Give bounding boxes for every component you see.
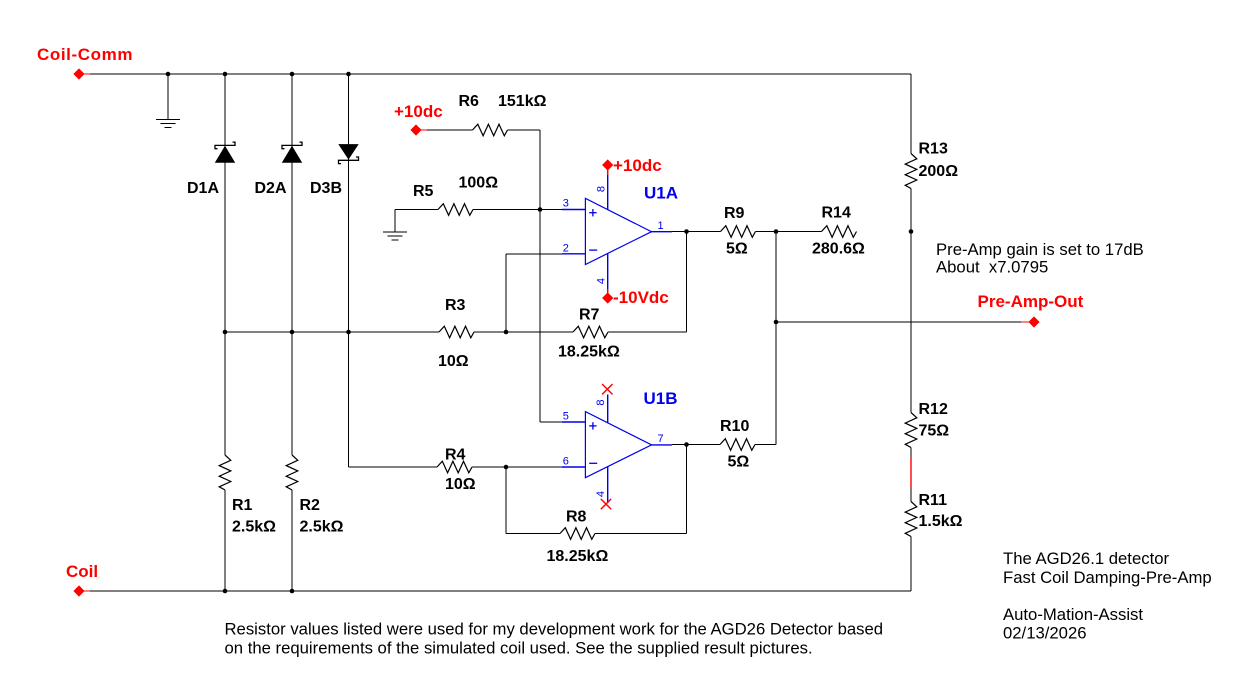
note gain line 1 — [936, 240, 1144, 259]
note author — [1003, 605, 1143, 624]
wire R8 to U1B output — [595, 445, 687, 534]
no-connect X at U1B pin 4 — [601, 499, 611, 509]
note title line 1 — [1003, 549, 1169, 568]
resistor R14 — [812, 205, 865, 258]
resistor R7 — [558, 307, 620, 361]
wire net stub to R11 — [910, 488, 912, 502]
svg-text:D2A: D2A — [255, 180, 287, 197]
svg-text:4: 4 — [596, 278, 608, 284]
junction top rail at D3B — [346, 72, 351, 77]
svg-text:+10dc: +10dc — [394, 102, 443, 121]
svg-text:Coil-Comm: Coil-Comm — [37, 45, 133, 64]
wire top rail — [90, 73, 911, 75]
svg-text:6: 6 — [563, 456, 569, 468]
resistor R12 — [905, 401, 949, 447]
pin 8 label U1B — [595, 399, 607, 405]
resistor R8 — [547, 509, 609, 566]
node +10dc at U1A pin 8 — [602, 156, 662, 175]
wire right rail top — [910, 74, 912, 154]
svg-text:151kΩ: 151kΩ — [498, 93, 547, 110]
svg-text:2.5kΩ: 2.5kΩ — [232, 519, 276, 536]
op-amp U1B — [562, 389, 678, 503]
wire R11 to bottom rail — [910, 537, 912, 592]
zener diode D1A — [187, 142, 235, 197]
wire R9 to mid node — [756, 231, 822, 233]
resistor R2 — [286, 455, 343, 536]
svg-text:100Ω: 100Ω — [459, 175, 499, 192]
svg-text:5: 5 — [563, 411, 569, 423]
note gain line 2 — [936, 258, 1048, 277]
wire R7 to output — [608, 232, 687, 333]
pin 4 label — [596, 278, 608, 284]
svg-text:1.5kΩ: 1.5kΩ — [919, 513, 963, 530]
svg-text:8: 8 — [595, 399, 607, 405]
svg-text:18.25kΩ: 18.25kΩ — [558, 344, 620, 361]
junction R3 row at D2A — [290, 330, 295, 335]
pin 4 label U1B — [595, 491, 607, 497]
svg-text:18.25kΩ: 18.25kΩ — [547, 548, 609, 565]
svg-text:The AGD26.1 detector: The AGD26.1 detector — [1003, 549, 1169, 568]
svg-text:R5: R5 — [413, 183, 434, 200]
wire inv node to R8 — [506, 467, 560, 534]
node Coil-Comm port — [37, 45, 133, 80]
node +10dc port — [394, 102, 443, 136]
svg-text:280.6Ω: 280.6Ω — [812, 241, 865, 258]
svg-text:2: 2 — [563, 243, 569, 255]
junction R3 row at D1A — [223, 330, 228, 335]
pin 3 label — [563, 198, 569, 210]
svg-text:About x7.0795: About x7.0795 — [936, 258, 1048, 277]
pin 1 label — [658, 220, 664, 232]
svg-text:Pre-Amp gain is set to 17dB: Pre-Amp gain is set to 17dB — [936, 240, 1144, 259]
resistor R10 — [720, 418, 755, 471]
svg-text:Auto-Mation-Assist: Auto-Mation-Assist — [1003, 605, 1143, 624]
pin 6 label — [563, 456, 569, 468]
junction top rail at ground — [166, 72, 171, 77]
ground GND1 — [156, 74, 180, 128]
wire R14 node to R12 — [910, 232, 912, 413]
svg-text:200Ω: 200Ω — [919, 163, 959, 180]
svg-text:Pre-Amp-Out: Pre-Amp-Out — [978, 292, 1084, 311]
svg-text:8: 8 — [596, 186, 608, 192]
svg-text:4: 4 — [595, 491, 607, 497]
svg-text:02/13/2026: 02/13/2026 — [1003, 624, 1087, 643]
junction bottom rail at R2 — [290, 589, 295, 594]
wire R3 to inv node — [474, 331, 573, 333]
wire inv node to U1A pin 2 — [506, 254, 562, 332]
node Pre-Amp-Out port — [978, 292, 1084, 328]
resistor R1 — [219, 455, 276, 536]
wire R6 to mid vertical — [508, 130, 541, 209]
svg-text:-10Vdc: -10Vdc — [613, 288, 669, 307]
svg-text:R14: R14 — [822, 205, 851, 222]
resistor R5 — [413, 175, 498, 216]
svg-text:75Ω: 75Ω — [919, 423, 950, 440]
svg-text:5Ω: 5Ω — [728, 454, 750, 471]
wire R10 to out column — [755, 232, 776, 445]
svg-text:R4: R4 — [445, 447, 466, 464]
note bottom line 2 — [225, 639, 813, 658]
zener diode D2A — [255, 142, 303, 197]
note title line 2 — [1003, 568, 1212, 587]
pin 2 label — [563, 243, 569, 255]
wire R4 to inv node U1B — [472, 466, 562, 468]
svg-text:on the requirements of the sim: on the requirements of the simulated coi… — [225, 639, 813, 658]
wire R3 row — [225, 331, 439, 333]
svg-text:R6: R6 — [459, 93, 480, 110]
junction right rail at R14 — [909, 229, 914, 234]
note date — [1003, 624, 1087, 643]
node -10Vdc at U1A pin 4 — [602, 288, 669, 307]
svg-text:2.5kΩ: 2.5kΩ — [300, 519, 344, 536]
wire Pre-Amp-Out — [776, 321, 1029, 323]
svg-text:R3: R3 — [445, 297, 466, 314]
svg-text:3: 3 — [563, 198, 569, 210]
wire bottom rail — [90, 590, 911, 592]
junction U1A output — [684, 229, 689, 234]
pin 7 label — [658, 433, 664, 445]
ground GND2 — [383, 210, 407, 241]
junction U1B output — [684, 442, 689, 447]
wire D1A column — [224, 74, 226, 455]
svg-text:D3B: D3B — [310, 180, 342, 197]
wire highlighted net — [910, 457, 912, 488]
wire D2A column — [291, 74, 293, 455]
wire R13 to R14 node — [910, 189, 912, 232]
resistor R3 — [438, 297, 474, 370]
wire R1 to bottom rail — [224, 490, 226, 591]
junction bottom rail at R1 — [223, 589, 228, 594]
note bottom line 1 — [225, 620, 884, 639]
junction top rail at D1A — [223, 72, 228, 77]
junction R3 row at D3B — [346, 330, 351, 335]
resistor R9 — [721, 205, 756, 258]
resistor R6 — [459, 93, 547, 136]
wire mid vertical to U1B pin5 — [540, 209, 562, 422]
svg-text:U1B: U1B — [644, 389, 678, 408]
junction out column tee — [774, 320, 779, 325]
wire GND2 to R5 — [395, 209, 438, 211]
svg-text:1: 1 — [658, 220, 664, 232]
wire U1A output — [672, 231, 721, 233]
svg-text:Resistor values listed were us: Resistor values listed were used for my … — [225, 620, 884, 639]
svg-text:7: 7 — [658, 433, 664, 445]
svg-text:10Ω: 10Ω — [445, 476, 476, 493]
svg-text:R1: R1 — [232, 497, 253, 514]
resistor R11 — [905, 492, 962, 536]
wire +10dc to R6 — [427, 129, 473, 131]
junction inv node U1A — [504, 330, 509, 335]
no-connect X at U1B pin 8 — [602, 384, 612, 394]
wire D3B column — [349, 74, 438, 467]
junction noninv node — [538, 207, 543, 212]
svg-text:R9: R9 — [724, 205, 745, 222]
svg-text:U1A: U1A — [644, 184, 678, 203]
junction inv node U1B — [504, 465, 509, 470]
node Coil port — [66, 562, 98, 597]
svg-text:10Ω: 10Ω — [438, 353, 469, 370]
pin 8 label — [596, 186, 608, 192]
resistor R4 — [437, 447, 476, 494]
svg-text:R7: R7 — [579, 307, 600, 324]
svg-text:R10: R10 — [720, 418, 749, 435]
junction mid output node — [774, 229, 779, 234]
wire R2 to bottom rail — [291, 490, 293, 591]
svg-text:Fast Coil Damping-Pre-Amp: Fast Coil Damping-Pre-Amp — [1003, 568, 1212, 587]
pin 5 label — [563, 411, 569, 423]
svg-text:R11: R11 — [919, 492, 948, 509]
svg-text:R12: R12 — [919, 401, 948, 418]
wire R12 to net stub — [910, 448, 912, 458]
op-amp U1A — [562, 175, 678, 289]
resistor R13 — [905, 141, 958, 189]
svg-text:R2: R2 — [300, 497, 321, 514]
wire U1B output — [672, 444, 720, 446]
svg-text:+10dc: +10dc — [613, 156, 662, 175]
zener diode D3B — [310, 144, 359, 197]
svg-text:Coil: Coil — [66, 562, 98, 581]
wire R5 to noninv node — [473, 209, 562, 211]
svg-text:R13: R13 — [919, 141, 948, 158]
svg-text:D1A: D1A — [187, 180, 219, 197]
svg-text:R8: R8 — [566, 509, 587, 526]
junction top rail at D2A — [290, 72, 295, 77]
svg-text:5Ω: 5Ω — [726, 241, 748, 258]
